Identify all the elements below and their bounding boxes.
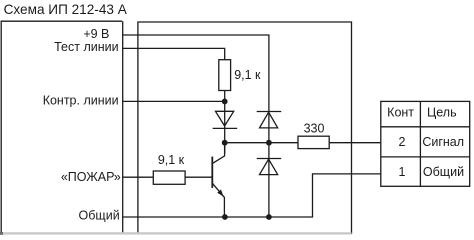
- wire R2 to transistor base: [185, 176, 212, 178]
- wire +9V net: [123, 35, 269, 217]
- circuit outer rectangle: [138, 22, 352, 234]
- transistor Q1 base bar: [211, 157, 213, 188]
- resistor R1 9,1k vertical: [219, 60, 231, 91]
- svg-text:9,1 к: 9,1 к: [158, 153, 185, 167]
- wire signal net (collector node to R3): [225, 142, 298, 144]
- detector box outline: [1, 21, 123, 233]
- diode D1 (anode up): [213, 111, 238, 128]
- svg-text:Общий: Общий: [79, 208, 120, 222]
- transistor Q1 collector: [212, 143, 224, 164]
- gray border dark corner: [0, 232, 3, 235]
- wire POZHAR base line: [123, 176, 154, 178]
- table contacts: [381, 101, 470, 186]
- resistor R3 330: [298, 136, 329, 148]
- wire control line: [123, 100, 225, 102]
- junction node collector/signal: [222, 140, 228, 146]
- wire resistor R1 bottom through diode D1 to collector node: [224, 91, 226, 154]
- junction node emitter/common: [222, 214, 228, 220]
- svg-text:Сигнал: Сигнал: [422, 135, 464, 149]
- svg-text:Контр. линии: Контр. линии: [43, 94, 119, 108]
- junction node resistor/control line: [222, 99, 228, 105]
- svg-text:Цель: Цель: [427, 106, 457, 120]
- svg-text:2: 2: [399, 135, 406, 149]
- resistor R2 9,1k horizontal: [153, 171, 185, 184]
- wire R3 to table contact 2: [329, 142, 381, 144]
- diode D3 (anode down): [257, 159, 282, 175]
- junction node D3/common: [266, 214, 272, 220]
- gray bottom border: [0, 232, 352, 234]
- svg-text:1: 1: [399, 165, 406, 179]
- svg-text:Общий: Общий: [423, 165, 464, 179]
- svg-text:Конт: Конт: [387, 105, 414, 119]
- transistor Q1 emitter arrow: [217, 190, 223, 197]
- svg-text:330: 330: [304, 121, 325, 135]
- svg-text:Схема ИП 212-43 А: Схема ИП 212-43 А: [4, 2, 128, 17]
- transistor Q1 emitter: [212, 183, 224, 217]
- diode D2 (anode down): [257, 112, 282, 128]
- junction node diodes D2/D3: [266, 140, 272, 146]
- svg-text:Тест линии: Тест линии: [54, 40, 118, 54]
- wire common rail: [123, 174, 381, 217]
- svg-text:9,1 к: 9,1 к: [234, 68, 261, 82]
- wire test line: [123, 48, 225, 59]
- svg-text:«ПОЖАР»: «ПОЖАР»: [61, 170, 121, 184]
- svg-text:+9 В: +9 В: [83, 27, 109, 41]
